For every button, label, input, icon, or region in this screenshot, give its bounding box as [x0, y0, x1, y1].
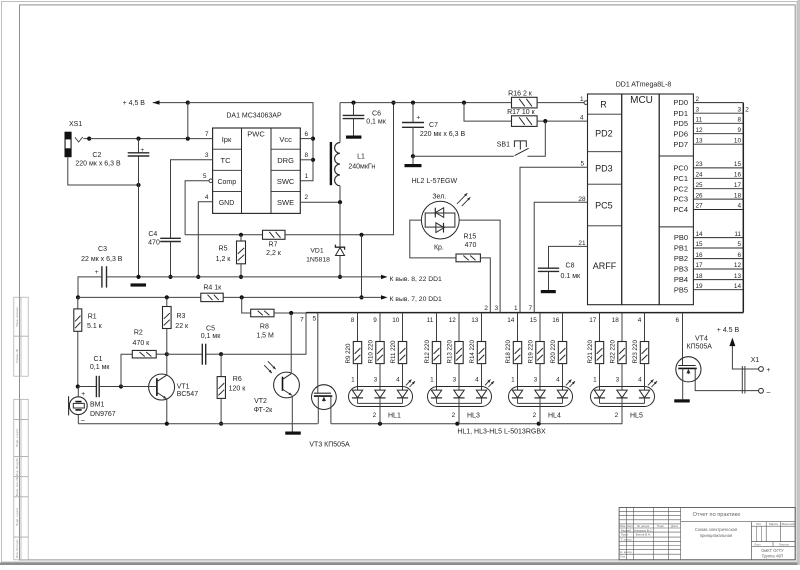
resistor R6 — [217, 354, 246, 426]
wire bus exit 14 — [507, 313, 517, 342]
svg-text:1: 1 — [511, 376, 515, 383]
wire C2 bottom to ground line — [138, 185, 140, 277]
svg-text:23: 23 — [696, 161, 704, 168]
svg-text:PD7: PD7 — [673, 140, 688, 149]
wire R21 to LED anode — [593, 364, 599, 391]
pin 26 PC3 lead — [673, 192, 743, 203]
resistor R3 — [163, 297, 190, 354]
transistor VT1 BC547 — [121, 354, 198, 424]
svg-text:26: 26 — [696, 192, 704, 199]
svg-text:11: 11 — [734, 231, 741, 238]
svg-text:19: 19 — [696, 283, 704, 290]
ground bar under C2 node — [131, 283, 147, 286]
svg-text:Vcc: Vcc — [279, 135, 292, 144]
LED block HL4 — [509, 380, 576, 407]
svg-text:11: 11 — [427, 317, 434, 324]
svg-text:PC0: PC0 — [673, 164, 688, 173]
svg-text:C1: C1 — [94, 356, 103, 363]
pin 13 PD7 lead — [673, 137, 743, 148]
pin 18 PB4 lead — [674, 273, 743, 284]
svg-text:12: 12 — [696, 127, 704, 134]
svg-text:DD1 ATmega8L-8: DD1 ATmega8L-8 — [616, 81, 672, 88]
svg-text:Инв. № подл.: Инв. № подл. — [15, 539, 19, 558]
MCU DD1 ATmega8L-8 — [588, 81, 694, 304]
svg-text:3: 3 — [374, 376, 378, 383]
svg-text:X1: X1 — [751, 357, 760, 364]
svg-text:120 к: 120 к — [229, 385, 247, 392]
svg-text:R22 220: R22 220 — [609, 340, 616, 364]
svg-text:Схема электрическая: Схема электрическая — [695, 527, 737, 532]
svg-text:4: 4 — [475, 376, 479, 383]
wire R12 to LED anode — [430, 364, 436, 391]
svg-text:C7: C7 — [429, 122, 438, 129]
pin 4 label DA1 — [205, 194, 209, 201]
wire audio node to bus (wire 7) — [221, 313, 306, 355]
label HL2 — [412, 178, 458, 185]
resistor R23 220 — [632, 340, 649, 364]
svg-text:21: 21 — [578, 240, 586, 247]
svg-text:BM1: BM1 — [90, 402, 105, 409]
svg-text:R9 220: R9 220 — [345, 343, 352, 364]
svg-text:1: 1 — [593, 376, 597, 383]
svg-text:6: 6 — [675, 317, 679, 324]
wire R9 to LED anode — [351, 364, 357, 391]
svg-text:R10 220: R10 220 — [367, 340, 374, 364]
resistor R14 220 — [469, 340, 486, 364]
wire R2 to collector node — [156, 352, 169, 356]
svg-text:470 к: 470 к — [133, 340, 151, 347]
svg-text:PB5: PB5 — [674, 285, 688, 294]
svg-text:DRG: DRG — [277, 156, 294, 165]
svg-text:К выв. 8, 22 DD1: К выв. 8, 22 DD1 — [390, 276, 443, 283]
svg-text:BC547: BC547 — [177, 391, 199, 398]
svg-text:R8: R8 — [260, 323, 269, 330]
wire bus exit 6 to VT4 gate — [675, 313, 682, 366]
svg-text:3: 3 — [616, 376, 620, 383]
svg-text:R13 220: R13 220 — [446, 340, 453, 364]
node VD1 anode on ground line — [338, 275, 342, 279]
svg-text:2: 2 — [615, 412, 619, 419]
svg-text:Группа 49П: Группа 49П — [762, 554, 784, 559]
svg-text:2: 2 — [484, 305, 488, 312]
svg-text:27: 27 — [696, 203, 704, 210]
svg-text:R19 220: R19 220 — [527, 340, 534, 364]
connector X1 — [742, 357, 770, 396]
svg-text:VT1: VT1 — [177, 383, 190, 390]
svg-text:1: 1 — [514, 305, 518, 312]
wire DA1 pin5 Comp to feedback rail — [185, 179, 213, 235]
svg-text:+ 4,5 В: + 4,5 В — [123, 100, 146, 107]
svg-text:R3: R3 — [177, 313, 186, 320]
svg-text:R18 220: R18 220 — [505, 340, 512, 364]
svg-text:3: 3 — [205, 152, 209, 159]
svg-text:HL1, HL3-HL5 L-5013RGBX: HL1, HL3-HL5 L-5013RGBX — [457, 428, 546, 435]
left margin cell: Перв. примен. — [14, 297, 28, 336]
diode VD1 1N5818 — [306, 202, 345, 277]
svg-text:Лит.: Лит. — [756, 522, 762, 526]
svg-text:принципиальная: принципиальная — [700, 533, 732, 538]
svg-text:16: 16 — [734, 172, 742, 179]
wire R11 to LED anode — [396, 364, 402, 391]
svg-text:470: 470 — [465, 242, 477, 249]
resistor R7 — [263, 230, 286, 256]
svg-text:Подп.: Подп. — [657, 524, 665, 528]
svg-text:C6: C6 — [372, 111, 381, 118]
svg-text:+: + — [766, 367, 770, 374]
left margin cell: Справ. № — [14, 336, 28, 376]
wire DA1 pin4 GND down to ground line — [196, 202, 213, 279]
svg-text:C3: C3 — [98, 246, 107, 253]
svg-text:КП505А: КП505А — [687, 343, 713, 350]
svg-text:HL1: HL1 — [388, 413, 401, 420]
wire R13 to LED anode — [453, 364, 459, 391]
wire +4.5V rail branch down to pin7 line — [187, 103, 189, 139]
svg-text:1N5818: 1N5818 — [306, 257, 330, 264]
svg-text:6: 6 — [737, 252, 741, 259]
resistor R2 — [132, 330, 156, 358]
svg-text:SB1: SB1 — [497, 142, 510, 149]
pin 21 label DD1 / wire ARFF to C8 — [549, 240, 588, 268]
svg-text:TC: TC — [221, 156, 232, 165]
pin 11 PD5 lead — [673, 117, 743, 128]
svg-text:R15: R15 — [463, 233, 476, 240]
resistor R15 — [456, 233, 480, 261]
svg-text:Дата: Дата — [671, 524, 678, 528]
wire DA1 pin8 stub — [300, 159, 313, 161]
svg-text:R4 1к: R4 1к — [203, 285, 222, 292]
svg-text:+ 4.5 В: + 4.5 В — [717, 327, 740, 334]
resistor R11 220 — [390, 340, 407, 364]
svg-text:25: 25 — [696, 182, 704, 189]
capacitor C7 — [402, 103, 465, 168]
capacitor C1 — [78, 356, 123, 397]
group bus bottom edge — [306, 312, 743, 314]
svg-text:Зел.: Зел. — [432, 193, 446, 200]
svg-text:PB0: PB0 — [674, 233, 688, 242]
svg-text:18: 18 — [612, 317, 620, 324]
svg-text:16: 16 — [696, 252, 704, 259]
wire R23 to LED anode — [638, 364, 644, 391]
pin 6 label DA1 — [305, 131, 309, 138]
wire R14 to LED anode — [475, 364, 481, 391]
svg-text:0,1 мк: 0,1 мк — [90, 364, 110, 371]
svg-text:240мкГн: 240мкГн — [348, 163, 375, 170]
svg-text:SWC: SWC — [277, 177, 295, 186]
svg-text:+: + — [95, 269, 99, 276]
svg-text:PB3: PB3 — [674, 265, 688, 274]
svg-text:PB1: PB1 — [674, 244, 688, 253]
svg-text:Взам. инв. №: Взам. инв. № — [15, 476, 19, 496]
pin 5 label DA1 — [203, 173, 207, 180]
svg-text:1,2 к: 1,2 к — [216, 256, 232, 263]
svg-text:GND: GND — [219, 200, 235, 207]
svg-text:2,2 к: 2,2 к — [266, 250, 282, 257]
power label +4.5 В with arrow (X1) — [717, 327, 759, 369]
svg-text:0,1 мк: 0,1 мк — [201, 333, 221, 340]
svg-text:R21 220: R21 220 — [587, 340, 594, 364]
wire ground line (К выв. 8, 22 DD1) — [107, 275, 443, 284]
title block — [619, 508, 795, 560]
svg-text:22 к: 22 к — [175, 323, 189, 330]
svg-text:HL2 L-57EGW: HL2 L-57EGW — [412, 178, 458, 185]
pin 2 PD0 lead — [673, 96, 743, 107]
wire bus exit 16 — [552, 313, 562, 342]
svg-text:PD6: PD6 — [673, 129, 688, 138]
wire bus exit 8 — [351, 313, 358, 342]
wire VCC to R8 — [242, 297, 251, 313]
group bus right edge — [742, 103, 744, 313]
wire DA1 pin2 SWE stub — [300, 200, 342, 204]
ground bar VT2 emitter — [285, 432, 301, 435]
resistor R12 220 — [424, 340, 441, 364]
pin 3 PD1 lead — [673, 106, 743, 117]
svg-text:1: 1 — [351, 376, 355, 383]
svg-text:4: 4 — [638, 376, 642, 383]
svg-text:–: – — [81, 417, 85, 424]
transistor VT3 КП505А — [309, 313, 350, 449]
svg-text:12: 12 — [449, 317, 457, 324]
svg-text:PD0: PD0 — [673, 98, 688, 107]
op-amp/converter DA1 MC34063AP — [213, 113, 301, 214]
left margin cell: Подп. и дата (lower) — [14, 497, 28, 537]
pin 28 label DD1 / wire PC5 to bus (wire 7) — [528, 196, 587, 313]
transistor VT4 КП505А — [676, 335, 759, 399]
svg-text:8: 8 — [351, 317, 355, 324]
svg-text:15: 15 — [734, 161, 742, 168]
svg-text:6: 6 — [305, 131, 309, 138]
wire DA1 pin6 stub — [300, 138, 313, 140]
svg-text:1: 1 — [580, 96, 584, 103]
svg-text:+: + — [416, 114, 420, 121]
svg-text:7: 7 — [528, 305, 532, 312]
svg-text:Листов: Листов — [779, 542, 789, 546]
svg-text:2: 2 — [745, 106, 749, 113]
svg-text:PC5: PC5 — [595, 201, 613, 211]
pin 8 label DA1 — [305, 152, 309, 159]
power label +4,5 В with arrow — [123, 100, 190, 107]
svg-text:R5: R5 — [219, 246, 228, 253]
svg-text:PWC: PWC — [247, 130, 265, 139]
svg-text:PB4: PB4 — [674, 275, 688, 284]
wire XS1 tip to pin7 line — [84, 137, 92, 141]
svg-text:2: 2 — [452, 412, 456, 419]
svg-text:3: 3 — [534, 376, 538, 383]
svg-text:XS1: XS1 — [69, 121, 82, 128]
svg-text:R2: R2 — [134, 330, 143, 337]
capacitor C2 — [75, 139, 149, 185]
resistor R10 220 — [367, 340, 384, 364]
svg-text:1: 1 — [305, 173, 309, 180]
svg-text:+: + — [81, 391, 85, 398]
svg-text:24: 24 — [696, 172, 704, 179]
svg-text:R11 220: R11 220 — [390, 340, 397, 363]
resistor R1 — [74, 297, 103, 388]
svg-text:22 мк x 6,3 В: 22 мк x 6,3 В — [81, 256, 123, 263]
wire LED common rail (VT3 drain) — [331, 407, 622, 426]
left margin cell: Инв. № подл. — [14, 537, 28, 560]
wire feedback rail right / output drop — [285, 101, 396, 237]
svg-text:5: 5 — [737, 241, 741, 248]
svg-text:3: 3 — [737, 106, 741, 113]
wire bus exit 15 — [530, 313, 540, 342]
svg-text:0.1 мк: 0.1 мк — [561, 273, 581, 280]
wire HL2 right to bus (wire 3) — [459, 220, 500, 313]
wire R22 to LED anode — [616, 364, 622, 391]
svg-text:R14 220: R14 220 — [469, 340, 476, 364]
svg-text:HL5: HL5 — [630, 413, 643, 420]
wire R16 to DD1 pin1 — [537, 101, 588, 105]
svg-text:C4: C4 — [148, 231, 157, 238]
resistor R21 220 — [587, 340, 604, 364]
svg-text:PD1: PD1 — [673, 109, 688, 118]
svg-text:1: 1 — [430, 376, 434, 383]
pin 27 PC4 lead — [673, 203, 743, 214]
svg-text:Масштаб: Масштаб — [782, 522, 795, 526]
svg-text:0,1 мк: 0,1 мк — [366, 119, 386, 126]
svg-text:15: 15 — [696, 241, 704, 248]
left margin cell: Инв. № дубл. — [14, 457, 28, 477]
svg-text:Лист: Лист — [754, 542, 761, 546]
wire HL1 common cathode — [373, 403, 401, 423]
wire R17 to DD1 pin4 — [537, 119, 587, 123]
svg-text:DN9767: DN9767 — [90, 411, 116, 418]
svg-text:14: 14 — [696, 231, 704, 238]
svg-text:Белов В.Н.: Белов В.Н. — [636, 532, 651, 536]
wire bus exit 4 — [638, 313, 645, 342]
svg-text:Инв. № дубл.: Инв. № дубл. — [15, 457, 19, 476]
svg-text:SWE: SWE — [277, 198, 294, 207]
svg-text:2: 2 — [533, 412, 537, 419]
wire base node up to R2 — [121, 354, 132, 386]
svg-text:VT3 КП505А: VT3 КП505А — [309, 441, 350, 448]
pin 25 PC2 lead — [673, 182, 743, 193]
wire +4.5V rail segment to DA1 pins 6/8/1 — [188, 103, 315, 181]
svg-text:PD5: PD5 — [673, 119, 688, 128]
svg-text:VT2: VT2 — [254, 398, 267, 405]
svg-text:Comp: Comp — [217, 179, 236, 186]
svg-text:2: 2 — [373, 412, 377, 419]
svg-text:220 мк x 6,3 В: 220 мк x 6,3 В — [420, 131, 466, 138]
wire VCC line (К выв. 7, 20 DD1) — [78, 295, 442, 303]
svg-text:PC2: PC2 — [673, 184, 688, 193]
svg-text:17: 17 — [696, 262, 704, 269]
resistor R9 220 — [345, 342, 362, 364]
svg-text:3: 3 — [453, 376, 457, 383]
pin 15 PB1 lead — [674, 241, 743, 252]
svg-text:11: 11 — [696, 117, 703, 124]
svg-text:HL3: HL3 — [467, 413, 480, 420]
svg-text:8: 8 — [305, 152, 309, 159]
svg-text:PC3: PC3 — [673, 195, 688, 204]
LED HL2 L-57EGW (dual) — [421, 193, 470, 251]
svg-text:ARFF: ARFF — [593, 261, 617, 271]
svg-text:Отчет по практике: Отчет по практике — [693, 512, 741, 518]
svg-text:R23 220: R23 220 — [632, 340, 639, 364]
svg-text:4: 4 — [205, 194, 209, 201]
wire output rail top — [340, 101, 512, 105]
wire bus exit 11 — [427, 313, 437, 342]
svg-text:4: 4 — [638, 317, 642, 324]
left margin cell: Взам. инв. № — [14, 476, 28, 496]
svg-text:220 мк x 6,3 В: 220 мк x 6,3 В — [75, 160, 121, 167]
svg-text:4: 4 — [556, 376, 560, 383]
svg-text:HL4: HL4 — [548, 413, 561, 420]
svg-text:R17 10 к: R17 10 к — [507, 109, 536, 116]
pin 4 label DD1 — [580, 114, 584, 121]
resistor R22 220 — [609, 340, 626, 364]
resistor R5 — [216, 235, 246, 279]
svg-text:5: 5 — [313, 316, 317, 323]
capacitor C6 — [343, 103, 387, 139]
inductor L1 — [331, 103, 375, 203]
wire R15 to bus (wire 2) — [480, 258, 490, 313]
svg-text:ОмКТ ОГТУ: ОмКТ ОГТУ — [761, 548, 784, 553]
svg-text:R6: R6 — [233, 376, 242, 383]
svg-text:Перв. примен.: Перв. примен. — [15, 306, 19, 327]
svg-text:14: 14 — [734, 283, 742, 290]
svg-text:PC4: PC4 — [673, 205, 688, 214]
svg-text:Утв.: Утв. — [620, 555, 626, 559]
svg-text:9: 9 — [373, 317, 377, 324]
svg-text:К выв. 7, 20 DD1: К выв. 7, 20 DD1 — [390, 296, 443, 303]
svg-text:+: + — [140, 147, 144, 154]
pin 19 PB5 lead — [674, 283, 743, 294]
svg-text:L1: L1 — [357, 153, 365, 160]
svg-text:PD3: PD3 — [595, 163, 613, 173]
capacitor C4 — [148, 231, 181, 277]
resistor R8 — [251, 309, 274, 339]
pin 2 label DA1 — [305, 194, 309, 201]
svg-text:9: 9 — [737, 127, 741, 134]
wire bus exit 18 — [612, 313, 622, 342]
svg-text:C5: C5 — [206, 326, 215, 333]
capacitor C5 — [167, 326, 223, 365]
wire rail to R17 — [464, 103, 512, 122]
svg-text:MCU: MCU — [630, 95, 653, 106]
pin 23 PC0 lead — [673, 161, 743, 172]
svg-text:C2: C2 — [92, 152, 101, 159]
wire HL2 left to R15 — [410, 220, 456, 258]
svg-text:PD2: PD2 — [595, 129, 613, 139]
wire R8 to VT2 collector node — [274, 311, 306, 315]
wire bus exit 13 — [471, 313, 481, 342]
svg-text:R: R — [600, 99, 607, 109]
resistor R20 220 — [550, 340, 567, 364]
svg-text:–: – — [767, 389, 771, 396]
pin 14 PB0 lead — [674, 231, 743, 242]
microphone BM1 — [69, 387, 116, 424]
wire output to VCC line drop — [359, 235, 363, 300]
resistor R13 220 — [446, 340, 463, 364]
node VCC left corner — [76, 295, 80, 299]
wire battery plus line (pin 7 net) — [89, 137, 213, 141]
wire number 2 outside bus — [745, 106, 749, 113]
pin 7 label DA1 — [205, 131, 209, 138]
resistor R18 220 — [505, 340, 522, 364]
svg-text:2: 2 — [696, 96, 700, 103]
svg-text:C8: C8 — [566, 262, 575, 269]
wire R19 to LED anode — [534, 364, 540, 391]
pin 24 PC1 lead — [673, 172, 743, 183]
pin 1 label DA1 — [305, 173, 309, 180]
wire bus exit 17 — [589, 313, 599, 342]
svg-text:Т. контр.: Т. контр. — [620, 538, 632, 542]
wire bus exit 12 — [449, 313, 459, 342]
pin 17 PB3 lead — [674, 262, 743, 273]
LED block HL3 — [428, 380, 495, 407]
svg-text:VT4: VT4 — [695, 335, 708, 342]
svg-text:Справ. №: Справ. № — [15, 348, 19, 363]
